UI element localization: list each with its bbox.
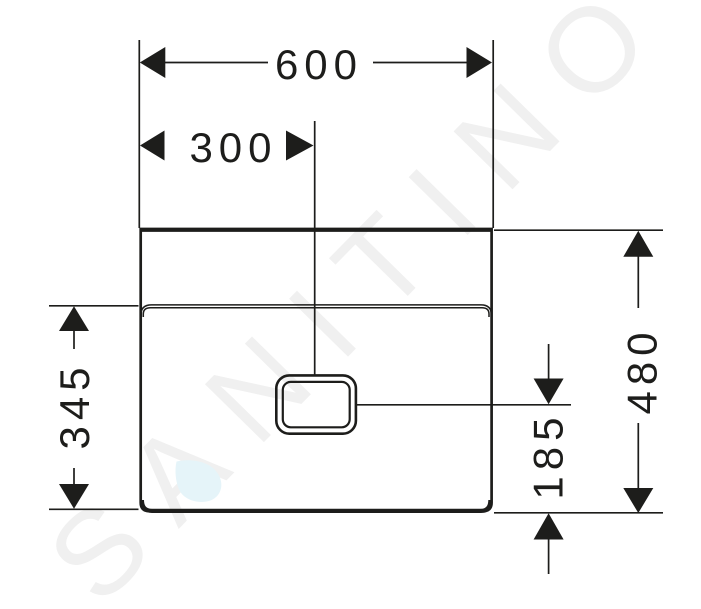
dimension line 480 lower tail — [637, 423, 639, 488]
basin outer contour — [141, 229, 492, 511]
dimension line 600 left segment — [164, 62, 268, 64]
tap hole outer ring — [276, 375, 356, 433]
svg-text:345: 345 — [51, 361, 98, 449]
basin joint lower line — [143, 308, 489, 317]
watermark droplet logo — [176, 460, 222, 502]
basin joint upper line — [141, 305, 492, 317]
arrow 345 up — [59, 306, 89, 331]
svg-text:300: 300 — [189, 124, 277, 171]
extension line left (600 dim, x=139) — [138, 40, 140, 228]
extension line 185 from tap hole — [357, 404, 571, 406]
dimension line 480 upper tail — [637, 256, 639, 308]
dimension line 185 lower tail — [548, 539, 550, 574]
extension line 345 top — [49, 305, 139, 307]
dimension line 345 lower tail — [73, 468, 75, 485]
basin bottom edge heavy line — [142, 500, 491, 511]
arrow 600 left — [140, 47, 166, 78]
arrow 345 down — [59, 484, 89, 509]
arrow 480 down — [623, 488, 653, 513]
svg-text:600: 600 — [275, 41, 363, 88]
tap hole inner ring — [283, 382, 350, 427]
extension line bottom right (480/185) — [494, 512, 663, 514]
basin top edge heavy line — [140, 228, 492, 232]
arrow 300 right — [286, 131, 314, 161]
arrow 600 right — [467, 47, 493, 78]
arrow 185 up (below bottom line) — [534, 513, 564, 539]
dimension line 600 right segment — [373, 62, 468, 64]
arrow 480 up — [623, 231, 653, 257]
extension line 345/bottom left — [49, 508, 139, 510]
extension line right (600 dim, x=493) — [492, 40, 494, 228]
arrow 185 down (above hole line) — [534, 379, 564, 405]
extension line 480 top — [494, 229, 663, 231]
svg-text:185: 185 — [525, 412, 572, 500]
svg-text:480: 480 — [619, 326, 666, 414]
dimension line 185 upper tail — [548, 344, 550, 379]
arrow 300 left — [140, 131, 165, 161]
dimension line 345 upper tail — [73, 330, 75, 349]
centre line (300 dim) — [314, 121, 316, 375]
